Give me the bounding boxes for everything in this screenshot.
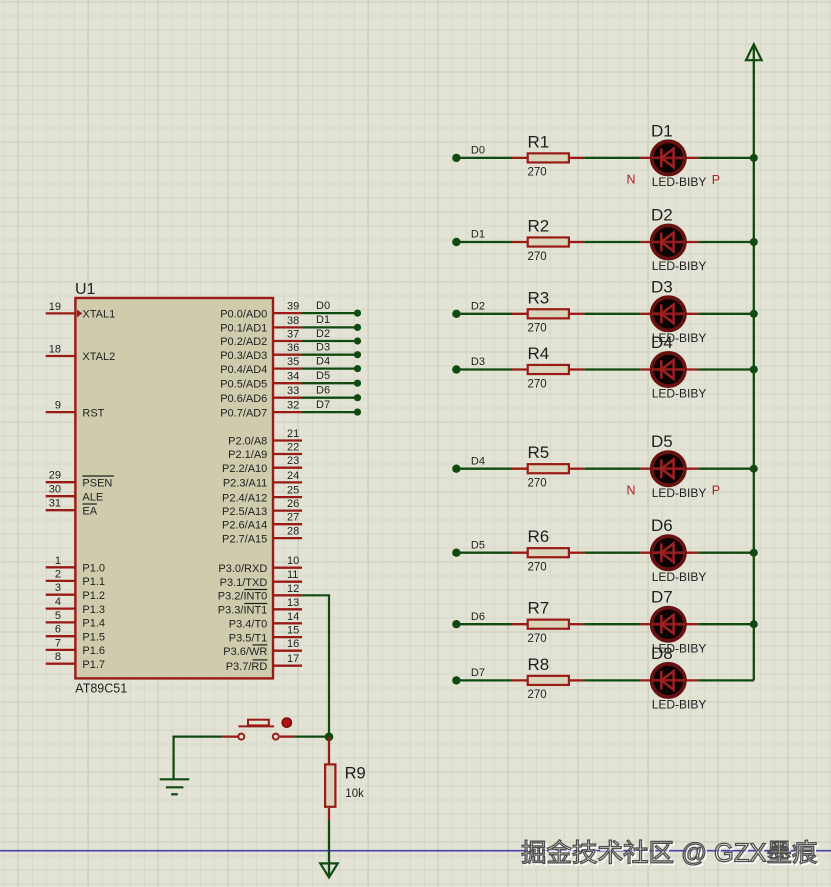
svg-text:D3: D3 bbox=[471, 356, 485, 368]
svg-text:P2.7/A15: P2.7/A15 bbox=[222, 533, 267, 545]
svg-text:D6: D6 bbox=[316, 385, 330, 397]
junction dot row 6 bbox=[750, 549, 758, 557]
pin 14 P3.4/T0 bbox=[273, 622, 302, 624]
power rail vertical bus bbox=[753, 60, 755, 680]
resistor R3 lead right bbox=[570, 313, 584, 315]
svg-text:17: 17 bbox=[287, 653, 299, 665]
node D5 dot bbox=[452, 549, 460, 557]
svg-text:R5: R5 bbox=[528, 443, 550, 462]
pin 19 XTAL1 bbox=[46, 312, 76, 314]
svg-text:R9: R9 bbox=[345, 765, 366, 783]
junction dot button/R9 bbox=[325, 733, 334, 742]
svg-text:P3.4/T0: P3.4/T0 bbox=[229, 619, 268, 631]
junction dot row 5 bbox=[750, 465, 758, 473]
svg-text:LED-BIBY: LED-BIBY bbox=[652, 175, 707, 189]
pin 38 P0.1/AD1 bbox=[273, 326, 302, 328]
wire R2 to LED D2 bbox=[584, 241, 640, 243]
svg-text:P0.4/AD4: P0.4/AD4 bbox=[220, 364, 267, 376]
svg-text:P3.5/T1: P3.5/T1 bbox=[229, 632, 268, 644]
LED D5 diode symbol bbox=[652, 459, 685, 478]
LED D3 leads bbox=[640, 313, 698, 315]
blue separator line bbox=[0, 850, 831, 852]
button right terminal bbox=[273, 734, 279, 740]
svg-text:D4: D4 bbox=[651, 333, 673, 352]
LED D8 body bbox=[652, 664, 685, 697]
svg-text:15: 15 bbox=[287, 625, 299, 637]
svg-text:31: 31 bbox=[49, 498, 61, 510]
svg-text:XTAL2: XTAL2 bbox=[82, 351, 115, 363]
resistor R5 body bbox=[528, 464, 569, 473]
pin 30 ALE bbox=[46, 495, 76, 497]
resistor R8 lead right bbox=[570, 679, 584, 681]
net D3 stub from pin 36 bbox=[302, 354, 358, 356]
resistor R2 lead right bbox=[570, 241, 584, 243]
svg-text:270: 270 bbox=[528, 251, 547, 263]
svg-text:28: 28 bbox=[287, 526, 299, 538]
svg-text:P0.7/AD7: P0.7/AD7 bbox=[220, 407, 267, 419]
pin 25 P2.4/A12 bbox=[273, 496, 302, 498]
svg-text:270: 270 bbox=[528, 478, 547, 490]
button left terminal bbox=[238, 734, 244, 740]
resistor R8 lead left bbox=[511, 679, 527, 681]
svg-text:D8: D8 bbox=[651, 644, 673, 663]
resistor R4 lead right bbox=[570, 368, 584, 370]
svg-text:10k: 10k bbox=[345, 788, 364, 800]
svg-text:11: 11 bbox=[287, 569, 298, 581]
svg-text:R3: R3 bbox=[528, 288, 550, 307]
pin 21 P2.0/A8 bbox=[273, 439, 302, 441]
svg-text:PSEN: PSEN bbox=[82, 477, 112, 489]
pin 15 P3.5/T1 bbox=[273, 636, 302, 638]
svg-text:D7: D7 bbox=[316, 399, 330, 411]
wire R3 to LED D3 bbox=[584, 313, 640, 315]
svg-text:19: 19 bbox=[49, 301, 61, 313]
svg-text:P0.5/AD5: P0.5/AD5 bbox=[220, 378, 267, 390]
svg-text:P2.4/A12: P2.4/A12 bbox=[222, 492, 267, 504]
junction dot row 1 bbox=[750, 154, 758, 162]
pin 26 P2.5/A13 bbox=[273, 509, 302, 511]
resistor R5 lead left bbox=[511, 468, 527, 470]
resistor R1 lead right bbox=[570, 157, 584, 159]
svg-text:P2.3/A11: P2.3/A11 bbox=[223, 478, 267, 490]
svg-text:U1: U1 bbox=[75, 281, 96, 298]
ground arrow symbol bbox=[320, 863, 337, 877]
button actuator bbox=[248, 720, 269, 726]
svg-text:2: 2 bbox=[55, 568, 61, 580]
svg-text:P1.3: P1.3 bbox=[82, 604, 105, 616]
resistor R7 lead right bbox=[570, 623, 584, 625]
pin 31 EA bbox=[46, 509, 76, 511]
LED D6 leads bbox=[640, 552, 698, 554]
svg-text:LED-BIBY: LED-BIBY bbox=[652, 570, 707, 584]
pin 3 P1.2 bbox=[46, 594, 76, 596]
svg-text:22: 22 bbox=[287, 442, 299, 454]
wire net D2 bbox=[456, 313, 511, 315]
svg-text:D6: D6 bbox=[471, 611, 485, 623]
svg-text:P3.0/RXD: P3.0/RXD bbox=[218, 563, 267, 575]
svg-text:LED-BIBY: LED-BIBY bbox=[652, 387, 707, 401]
pin 27 P2.6/A14 bbox=[273, 523, 302, 525]
svg-text:P: P bbox=[712, 484, 720, 498]
node D2 dot bbox=[452, 310, 460, 318]
wire LED D2 to bus bbox=[698, 241, 754, 243]
resistor R2 lead left bbox=[511, 241, 527, 243]
pin 5 P1.4 bbox=[46, 621, 76, 623]
net D4 stub from pin 35 bbox=[302, 367, 358, 369]
pin 37 P0.2/AD2 bbox=[273, 340, 302, 342]
wire R1 to LED D1 bbox=[584, 157, 640, 159]
resistor R7 body bbox=[528, 620, 569, 629]
svg-text:P0.0/AD0: P0.0/AD0 bbox=[220, 308, 267, 320]
svg-text:D7: D7 bbox=[471, 667, 485, 679]
net D5 stub from pin 34 bbox=[302, 382, 358, 384]
wire net D6 bbox=[456, 623, 511, 625]
svg-text:P2.1/A9: P2.1/A9 bbox=[228, 449, 267, 461]
resistor R1 body bbox=[528, 153, 569, 162]
wire net D5 bbox=[456, 552, 511, 554]
svg-text:38: 38 bbox=[287, 315, 299, 327]
svg-text:LED-BIBY: LED-BIBY bbox=[652, 259, 707, 273]
junction dot row 7 bbox=[750, 620, 758, 628]
svg-text:P2.2/A10: P2.2/A10 bbox=[222, 463, 267, 475]
svg-text:8: 8 bbox=[55, 651, 61, 663]
svg-text:7: 7 bbox=[55, 637, 61, 649]
resistor R1 lead left bbox=[511, 157, 527, 159]
pin 34 P0.5/AD5 bbox=[273, 382, 302, 384]
svg-text:35: 35 bbox=[287, 356, 299, 368]
LED D2 diode symbol bbox=[652, 233, 685, 252]
resistor R5 lead right bbox=[570, 468, 584, 470]
pin 24 P2.3/A11 bbox=[273, 481, 302, 483]
svg-text:R7: R7 bbox=[528, 599, 550, 618]
wire net D0 bbox=[456, 157, 511, 159]
svg-text:EA: EA bbox=[82, 505, 97, 517]
wire R8 to LED D8 bbox=[584, 679, 640, 681]
svg-text:32: 32 bbox=[287, 400, 299, 412]
wire R6 to LED D6 bbox=[584, 552, 640, 554]
svg-text:16: 16 bbox=[287, 638, 299, 650]
svg-text:D2: D2 bbox=[471, 300, 485, 312]
wire net D1 bbox=[456, 241, 511, 243]
LED D1 diode symbol bbox=[652, 149, 685, 168]
svg-text:D4: D4 bbox=[316, 355, 330, 367]
LED D8 diode symbol bbox=[652, 671, 685, 690]
LED D5 body bbox=[652, 452, 685, 485]
svg-text:P0.2/AD2: P0.2/AD2 bbox=[220, 336, 267, 348]
pin 17 P3.7/RD bbox=[273, 665, 302, 667]
pin 10 P3.0/RXD bbox=[273, 567, 302, 569]
pin 6 P1.5 bbox=[46, 635, 76, 637]
pin 36 P0.3/AD3 bbox=[273, 354, 302, 356]
resistor R6 body bbox=[528, 548, 569, 557]
junction dot row 2 bbox=[750, 238, 758, 246]
svg-text:P0.3/AD3: P0.3/AD3 bbox=[220, 350, 267, 362]
svg-text:R2: R2 bbox=[528, 217, 550, 236]
net D2 stub from pin 37 bbox=[302, 340, 358, 342]
wire net D4 bbox=[456, 468, 511, 470]
svg-text:ALE: ALE bbox=[82, 491, 103, 503]
svg-text:1: 1 bbox=[55, 555, 61, 567]
svg-text:27: 27 bbox=[287, 512, 299, 524]
wire net D7 bbox=[456, 679, 511, 681]
svg-text:D1: D1 bbox=[316, 314, 330, 326]
svg-text:D3: D3 bbox=[316, 342, 330, 354]
svg-text:D1: D1 bbox=[471, 229, 485, 241]
svg-text:D6: D6 bbox=[651, 516, 673, 535]
LED D4 leads bbox=[640, 368, 698, 370]
svg-text:P2.5/A13: P2.5/A13 bbox=[222, 506, 267, 518]
svg-text:270: 270 bbox=[528, 633, 547, 645]
LED D4 diode symbol bbox=[652, 360, 685, 379]
pin 2 P1.1 bbox=[46, 580, 76, 582]
svg-text:N: N bbox=[627, 483, 636, 497]
pin 18 XTAL2 bbox=[46, 355, 76, 357]
svg-text:D2: D2 bbox=[651, 206, 673, 225]
resistor R8 body bbox=[528, 676, 569, 685]
resistor R6 lead right bbox=[570, 552, 584, 554]
svg-text:P1.6: P1.6 bbox=[82, 645, 105, 657]
resistor R3 lead left bbox=[511, 313, 527, 315]
node D1 dot bbox=[452, 238, 460, 246]
button right lead bbox=[280, 735, 295, 737]
pin 1 P1.0 bbox=[46, 566, 76, 568]
LED D7 leads bbox=[640, 623, 698, 625]
node D7 dot bbox=[452, 676, 460, 684]
button indicator dot bbox=[282, 718, 291, 727]
svg-text:D1: D1 bbox=[651, 121, 673, 140]
svg-text:N: N bbox=[627, 173, 636, 187]
svg-text:270: 270 bbox=[528, 323, 547, 335]
svg-text:29: 29 bbox=[49, 470, 61, 482]
svg-text:3: 3 bbox=[55, 582, 61, 594]
pin 35 P0.4/AD4 bbox=[273, 367, 302, 369]
net D6 stub from pin 33 bbox=[302, 397, 358, 399]
LED D7 diode symbol bbox=[652, 615, 685, 634]
svg-text:P1.4: P1.4 bbox=[82, 618, 105, 630]
svg-text:XTAL1: XTAL1 bbox=[82, 309, 115, 321]
svg-text:10: 10 bbox=[287, 555, 299, 567]
svg-text:18: 18 bbox=[49, 344, 61, 356]
pin 33 P0.6/AD6 bbox=[273, 397, 302, 399]
pin 32 P0.7/AD7 bbox=[273, 411, 302, 413]
svg-text:34: 34 bbox=[287, 371, 299, 383]
svg-text:P3.6/WR: P3.6/WR bbox=[223, 646, 267, 658]
svg-text:P1.1: P1.1 bbox=[82, 576, 105, 588]
net D7 stub from pin 32 bbox=[302, 411, 358, 413]
svg-text:P1.2: P1.2 bbox=[82, 590, 105, 602]
svg-text:6: 6 bbox=[55, 624, 61, 636]
pin 39 P0.0/AD0 bbox=[273, 312, 302, 314]
LED D6 body bbox=[652, 536, 685, 569]
wire LED D4 to bus bbox=[698, 368, 754, 370]
junction dot row 4 bbox=[750, 366, 758, 374]
svg-text:270: 270 bbox=[528, 689, 547, 701]
resistor R9 body bbox=[325, 764, 335, 806]
pin 11 P3.1/TXD bbox=[273, 581, 302, 583]
svg-text:R1: R1 bbox=[528, 132, 550, 151]
node D0 dot bbox=[452, 154, 460, 162]
ground symbol bbox=[160, 779, 190, 794]
resistor R6 lead left bbox=[511, 552, 527, 554]
LED D1 leads bbox=[640, 157, 698, 159]
svg-text:R8: R8 bbox=[528, 655, 550, 674]
pin 28 P2.7/A15 bbox=[273, 537, 302, 539]
wire LED D7 to bus bbox=[698, 623, 754, 625]
wire LED D1 to bus bbox=[698, 157, 754, 159]
wire LED D8 to bus bbox=[698, 679, 754, 681]
svg-text:AT89C51: AT89C51 bbox=[75, 681, 127, 695]
button left lead bbox=[222, 735, 238, 737]
net D1 stub from pin 38 bbox=[302, 326, 358, 328]
pin 4 P1.3 bbox=[46, 607, 76, 609]
wire pin12 P3.2/INT0 to button junction bbox=[302, 595, 329, 736]
svg-text:30: 30 bbox=[49, 484, 61, 496]
svg-text:D0: D0 bbox=[316, 300, 330, 312]
svg-text:23: 23 bbox=[287, 455, 299, 467]
svg-text:P3.7/RD: P3.7/RD bbox=[226, 661, 268, 673]
svg-text:13: 13 bbox=[287, 597, 299, 609]
pin 23 P2.2/A10 bbox=[273, 467, 302, 469]
node D4 dot bbox=[452, 465, 460, 473]
svg-text:P3.1/TXD: P3.1/TXD bbox=[220, 577, 268, 589]
resistor R9 lead top bbox=[328, 737, 330, 765]
svg-text:D2: D2 bbox=[316, 328, 330, 340]
LED D3 body bbox=[652, 297, 685, 330]
LED D5 leads bbox=[640, 468, 698, 470]
resistor R4 lead left bbox=[511, 368, 527, 370]
svg-text:26: 26 bbox=[287, 498, 299, 510]
IC U1 AT89C51 body bbox=[75, 298, 273, 678]
pin 16 P3.6/WR bbox=[273, 650, 302, 652]
svg-text:P1.7: P1.7 bbox=[82, 659, 105, 671]
resistor R2 body bbox=[528, 237, 569, 246]
pin 13 P3.3/INT1 bbox=[273, 608, 302, 610]
resistor R9 lead bottom bbox=[328, 808, 330, 821]
svg-text:P2.6/A14: P2.6/A14 bbox=[222, 519, 267, 531]
svg-text:P: P bbox=[712, 173, 720, 187]
node D6 dot bbox=[452, 620, 460, 628]
svg-text:21: 21 bbox=[287, 428, 299, 440]
svg-text:@ GZX: @ GZX bbox=[674, 840, 766, 868]
net D0 stub from pin 39 bbox=[302, 312, 358, 314]
svg-text:D5: D5 bbox=[651, 432, 673, 451]
wire LED D5 to bus bbox=[698, 468, 754, 470]
wire R4 to LED D4 bbox=[584, 368, 640, 370]
resistor R4 body bbox=[528, 365, 569, 374]
svg-text:D7: D7 bbox=[651, 588, 673, 607]
LED D1 body bbox=[652, 141, 685, 174]
svg-text:P0.1/AD1: P0.1/AD1 bbox=[220, 323, 267, 335]
wire button to junction bbox=[294, 735, 329, 737]
node D3 dot bbox=[452, 365, 460, 373]
svg-text:P3.2/INT0: P3.2/INT0 bbox=[218, 591, 268, 603]
svg-text:270: 270 bbox=[528, 167, 547, 179]
svg-text:D4: D4 bbox=[471, 455, 485, 467]
svg-text:25: 25 bbox=[287, 485, 299, 497]
wire LED D6 to bus bbox=[698, 552, 754, 554]
svg-text:36: 36 bbox=[287, 342, 299, 354]
LED D2 leads bbox=[640, 241, 698, 243]
svg-text:LED-BIBY: LED-BIBY bbox=[652, 486, 707, 500]
pin 8 P1.7 bbox=[46, 663, 76, 665]
svg-text:270: 270 bbox=[528, 378, 547, 390]
pin 29 PSEN bbox=[46, 481, 76, 483]
LED D6 diode symbol bbox=[652, 543, 685, 562]
LED D2 body bbox=[652, 225, 685, 258]
wire R5 to LED D5 bbox=[584, 468, 640, 470]
svg-text:12: 12 bbox=[287, 583, 299, 595]
LED D8 leads bbox=[640, 679, 698, 681]
svg-text:9: 9 bbox=[55, 400, 61, 412]
wire ground to button bbox=[174, 737, 223, 780]
pin 7 P1.6 bbox=[46, 649, 76, 651]
button bar bbox=[238, 725, 274, 727]
svg-text:D3: D3 bbox=[651, 277, 673, 296]
svg-text:R4: R4 bbox=[528, 344, 550, 363]
pin 12 P3.2/INT0 bbox=[273, 594, 302, 596]
svg-text:P1.0: P1.0 bbox=[82, 563, 105, 575]
svg-text:39: 39 bbox=[287, 301, 299, 313]
wire LED D3 to bus bbox=[698, 313, 754, 315]
svg-text:P2.0/A8: P2.0/A8 bbox=[228, 436, 267, 448]
wire net D3 bbox=[456, 368, 511, 370]
svg-text:RST: RST bbox=[82, 407, 104, 419]
wire R9 to ground arrow bbox=[328, 821, 330, 877]
power arrow symbol bbox=[746, 44, 762, 60]
svg-text:5: 5 bbox=[55, 610, 61, 622]
LED D7 body bbox=[652, 608, 685, 641]
svg-text:R6: R6 bbox=[528, 527, 550, 546]
svg-text:24: 24 bbox=[287, 470, 299, 482]
svg-text:D5: D5 bbox=[471, 539, 485, 551]
junction dot row 3 bbox=[750, 310, 758, 318]
svg-text:D0: D0 bbox=[471, 145, 485, 157]
svg-text:4: 4 bbox=[55, 596, 61, 608]
pin 22 P2.1/A9 bbox=[273, 453, 302, 455]
svg-text:270: 270 bbox=[528, 562, 547, 574]
svg-text:P0.6/AD6: P0.6/AD6 bbox=[220, 393, 267, 405]
resistor R3 body bbox=[528, 309, 569, 318]
svg-text:37: 37 bbox=[287, 329, 299, 341]
svg-text:14: 14 bbox=[287, 611, 299, 623]
svg-text:33: 33 bbox=[287, 385, 299, 397]
LED D3 diode symbol bbox=[652, 305, 685, 324]
pin 9 RST bbox=[46, 411, 76, 413]
svg-text:D5: D5 bbox=[316, 370, 330, 382]
svg-text:P3.3/INT1: P3.3/INT1 bbox=[218, 605, 268, 617]
svg-text:P1.5: P1.5 bbox=[82, 631, 105, 643]
resistor R7 lead left bbox=[511, 623, 527, 625]
svg-text:LED-BIBY: LED-BIBY bbox=[652, 698, 707, 712]
wire R7 to LED D7 bbox=[584, 623, 640, 625]
LED D4 body bbox=[652, 353, 685, 386]
watermark text bbox=[523, 841, 818, 869]
